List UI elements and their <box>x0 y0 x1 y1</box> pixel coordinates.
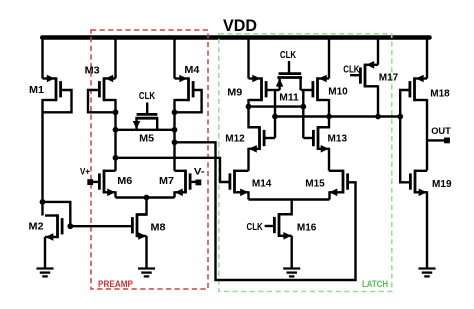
M10 label <box>328 86 348 98</box>
wire M5 bridge line <box>116 129 175 131</box>
wire diff pair tail <box>116 196 175 198</box>
wire tail to M16 drain <box>279 200 292 215</box>
transistor M5 <box>133 114 159 129</box>
wire node to M2 gate branch <box>43 202 71 226</box>
M1 gate tie wire <box>43 90 72 112</box>
V- label <box>194 166 205 176</box>
node M3-M5 dot <box>113 127 119 133</box>
M9 label <box>227 87 242 99</box>
svg-text:V+: V+ <box>80 166 90 176</box>
transistor M2 <box>45 214 62 241</box>
svg-text:M18: M18 <box>430 88 450 100</box>
wire M18 source down to M19 <box>426 99 428 171</box>
svg-text:M12: M12 <box>225 133 245 145</box>
transistor M15 <box>329 170 348 197</box>
wire M10 source down <box>328 99 330 117</box>
CLK label M11 <box>280 50 297 61</box>
wire M16 source to ground <box>291 236 293 269</box>
node latch-left dot <box>272 114 278 120</box>
M7 label <box>159 175 174 187</box>
transistor M10 <box>313 75 329 102</box>
wire M19 source to ground <box>426 191 428 268</box>
PREAMP box (red dashed) <box>91 30 208 289</box>
svg-text:M9: M9 <box>227 87 242 99</box>
svg-text:CLK: CLK <box>247 222 264 233</box>
wire M8 source to ground <box>145 236 147 269</box>
svg-text:M13: M13 <box>328 133 348 145</box>
M3 gate tie wire <box>88 90 116 112</box>
node M4-M5 dot <box>172 127 178 133</box>
V+ input square <box>87 179 93 185</box>
wire M1 source down to node <box>41 99 43 202</box>
M6 label <box>117 175 132 187</box>
wire cross-couple upper <box>249 105 304 107</box>
svg-text:M11: M11 <box>279 91 299 103</box>
M16 label <box>297 222 317 234</box>
wire M17 source down <box>377 85 379 116</box>
VDD power rail <box>42 35 429 40</box>
wire VDD to M10 drain <box>328 36 330 79</box>
wire M3 source down <box>114 99 116 112</box>
CLK label M16 <box>247 222 264 233</box>
svg-text:M10: M10 <box>328 86 348 98</box>
wire M10 gate to latch node <box>301 89 313 91</box>
svg-text:OUT: OUT <box>431 126 451 137</box>
M3 label <box>85 65 100 77</box>
wire VDD to M18 drain <box>426 36 428 79</box>
ground under M19 <box>419 269 436 277</box>
node M10 drain dot <box>326 114 332 120</box>
M4 gate tie wire <box>175 90 202 112</box>
wire latch right gate vertical <box>302 90 304 138</box>
transistor M6 <box>99 170 115 197</box>
node M3 dot <box>113 109 119 115</box>
CLK label M5 <box>139 91 156 102</box>
M12 label <box>225 133 245 145</box>
wire M12 source down to M14 <box>247 148 249 171</box>
wire VDD to M1 drain <box>41 36 43 79</box>
wire M3 node down to M6 <box>114 112 116 171</box>
ground under M16 <box>283 269 300 277</box>
transistor M1 <box>43 75 61 102</box>
wire line-B to M14 gate <box>116 158 230 182</box>
wire M15 source down <box>328 191 330 199</box>
node latch line to gates dot <box>397 114 403 120</box>
wire M12 gate to latch node <box>265 137 275 139</box>
wire VDD to M4 drain <box>173 36 175 79</box>
M17 label <box>379 72 399 84</box>
node M9 drain dot <box>246 104 252 110</box>
M11 label <box>279 91 299 103</box>
wire M4 node down to M7 <box>173 112 175 171</box>
svg-text:M2: M2 <box>29 220 44 232</box>
M18 label <box>430 88 450 100</box>
svg-text:M15: M15 <box>305 177 325 189</box>
wire M18 gate down <box>400 90 409 182</box>
wire M7 source down <box>173 191 175 197</box>
node M17 dot <box>375 114 381 120</box>
M14 label <box>252 177 272 189</box>
transistor M3 <box>99 75 115 102</box>
transistor M12 <box>249 126 265 153</box>
transistor M16 <box>274 213 291 240</box>
wire M6 source down <box>114 191 116 197</box>
wire M2 source to ground <box>44 237 46 269</box>
svg-text:CLK: CLK <box>139 91 156 102</box>
svg-text:LATCH: LATCH <box>362 278 388 289</box>
wire M4 source down <box>173 99 175 112</box>
svg-text:VDD: VDD <box>223 16 257 35</box>
transistor M18 <box>410 75 427 102</box>
wire M2 gate to M8 gate <box>70 225 131 227</box>
transistor M9 <box>249 75 267 102</box>
wire latch tail <box>249 198 330 200</box>
svg-text:M5: M5 <box>139 133 154 145</box>
wire latch left gate vertical <box>274 90 276 138</box>
M13 label <box>328 133 348 145</box>
node M4 dot <box>172 109 178 115</box>
wire node down to M2 drain <box>41 202 43 216</box>
svg-text:M6: M6 <box>117 175 132 187</box>
transistor M7 <box>175 170 191 197</box>
transistor M19 <box>410 170 427 197</box>
V- input square <box>196 180 202 186</box>
svg-text:PREAMP: PREAMP <box>98 278 133 289</box>
transistor M14 <box>230 170 249 197</box>
wire M9 node to M12 drain <box>249 107 260 128</box>
node latch-right dot <box>300 104 306 110</box>
svg-text:V-: V- <box>194 166 205 176</box>
M11 CLK stem <box>288 61 290 74</box>
wire M10 node to M13 drain <box>318 117 329 128</box>
wire V+ to M6 gate <box>90 181 99 183</box>
node M1-M2 junction dot <box>40 199 46 205</box>
svg-text:M3: M3 <box>85 65 100 77</box>
LATCH label <box>362 278 388 289</box>
M8 label <box>151 222 166 234</box>
svg-text:M19: M19 <box>432 178 452 190</box>
wire VDD to M17 drain <box>377 36 379 65</box>
CLK label M17 <box>343 65 360 76</box>
node M2 gate dot <box>67 223 73 229</box>
M2 label <box>29 220 44 232</box>
M15 label <box>305 177 325 189</box>
transistor M17 <box>360 61 378 88</box>
M4 label <box>184 64 199 76</box>
node tail dot <box>144 195 150 201</box>
LATCH box (green dashed) <box>219 34 392 292</box>
wire M14 source down <box>247 191 249 199</box>
wire VDD to M3 drain <box>114 36 116 79</box>
svg-text:M16: M16 <box>297 222 317 234</box>
node line-A start dot <box>172 139 178 145</box>
M19 label <box>432 178 452 190</box>
svg-text:M14: M14 <box>252 177 272 189</box>
wire line-A to M15 gate <box>175 142 356 280</box>
wire VDD to M9 drain <box>247 36 249 79</box>
transistor M11 <box>276 74 302 90</box>
transistor M4 <box>175 75 194 102</box>
VDD label <box>223 16 257 35</box>
svg-text:M8: M8 <box>151 222 166 234</box>
node line-B start dot <box>113 155 119 161</box>
svg-text:CLK: CLK <box>280 50 297 61</box>
V+ label <box>80 166 90 176</box>
ground under M8 <box>138 269 155 277</box>
transistor M13 <box>313 126 329 153</box>
PREAMP label <box>98 278 133 289</box>
wire M13 gate to latch node <box>303 137 312 139</box>
svg-text:M1: M1 <box>29 84 44 96</box>
ground under M2 <box>37 269 54 277</box>
wire M7 gate to V- <box>190 181 198 183</box>
wire M9 source down <box>247 99 249 107</box>
wire M13 source down to M15 <box>328 148 330 171</box>
wire cross-couple lower <box>275 115 400 117</box>
svg-text:M7: M7 <box>159 175 174 187</box>
svg-text:CLK: CLK <box>343 65 360 76</box>
OUT label <box>431 126 451 137</box>
wire CLK to M17 gate <box>350 74 360 76</box>
OUT square <box>444 138 450 144</box>
wire CLK to M16 gate <box>265 225 274 227</box>
svg-text:M4: M4 <box>184 64 199 76</box>
wire M9 gate to latch node <box>267 89 280 91</box>
transistor M8 <box>132 213 146 240</box>
M5 CLK stem <box>146 103 148 115</box>
wire tail to M8 drain <box>137 198 147 215</box>
M1 label <box>29 84 44 96</box>
wire OUT <box>427 139 446 141</box>
svg-text:M17: M17 <box>379 72 399 84</box>
M5 label <box>139 133 154 145</box>
